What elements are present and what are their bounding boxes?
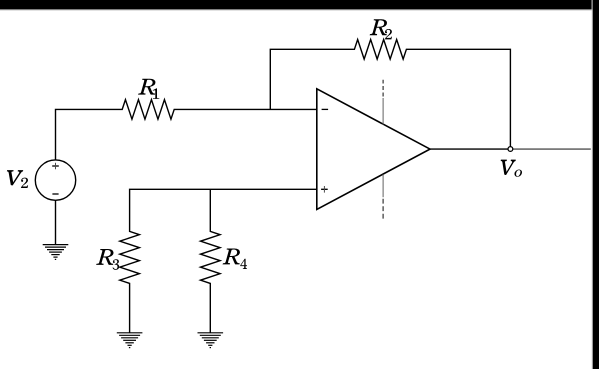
op-amp top power stub (solid part) bbox=[382, 98, 384, 124]
ground under R4 bbox=[198, 333, 224, 348]
op-amp bottom power stub (solid part) bbox=[382, 174, 384, 197]
op-amp top power stub (dashed part) bbox=[382, 80, 384, 97]
op-amp bottom power stub (dashed part) bbox=[382, 199, 384, 219]
resistor R4 bbox=[201, 189, 221, 332]
top black border bar bbox=[0, 0, 599, 9]
right black border bar bbox=[593, 0, 599, 369]
label R2 bbox=[370, 19, 387, 35]
voltage source V2 bbox=[35, 160, 75, 200]
resistor R1 bbox=[56, 100, 317, 160]
wire: output wire from node to right edge bbox=[513, 148, 591, 150]
op-amp inverting input minus sign bbox=[322, 108, 329, 110]
label Vo bbox=[501, 160, 516, 175]
wire: output wire from op-amp apex to right edge bbox=[430, 148, 510, 150]
op-amp U1 triangle bbox=[317, 89, 430, 210]
node Vo open terminal circle bbox=[508, 147, 513, 152]
ground under R3 bbox=[117, 333, 143, 348]
ground under V2 bbox=[43, 245, 69, 260]
label R3 bbox=[96, 249, 113, 265]
label V2 bbox=[7, 170, 23, 185]
plus sign inside V2 bbox=[52, 165, 59, 167]
resistor R2 bbox=[270, 40, 510, 150]
op-amp non-inverting input plus sign bbox=[321, 188, 328, 190]
wire: V2 bottom lead bbox=[55, 200, 57, 244]
label R4 bbox=[222, 249, 239, 265]
minus sign inside V2 bbox=[52, 193, 58, 195]
label R1 bbox=[138, 79, 155, 95]
resistor R3 bbox=[120, 189, 317, 332]
